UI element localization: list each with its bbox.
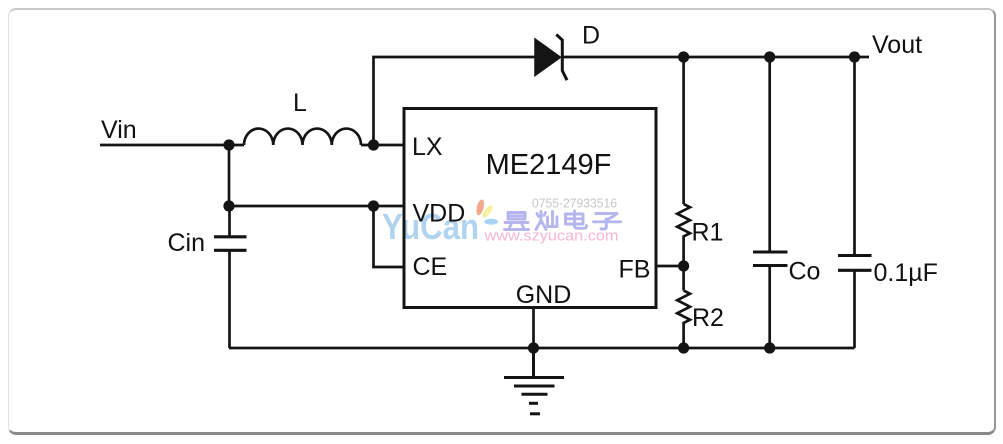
svg-text:VDD: VDD bbox=[413, 200, 466, 228]
capacitor C3 0.1uF plates bbox=[838, 256, 872, 271]
svg-text:0755-27933516: 0755-27933516 bbox=[532, 196, 617, 211]
wire Co top lead bbox=[768, 57, 771, 252]
capacitor Co plates bbox=[753, 252, 788, 266]
wire FB pin lead bbox=[656, 265, 684, 268]
node FB junction bbox=[678, 260, 689, 271]
svg-text:CE: CE bbox=[413, 253, 448, 281]
wire R1 bottom lead to FB node bbox=[682, 239, 685, 267]
svg-text:www.szyucan.com: www.szyucan.com bbox=[483, 228, 618, 245]
wire vin node to VDD rail vertical bbox=[228, 145, 231, 206]
svg-text:R1: R1 bbox=[692, 219, 724, 247]
wire Cin top lead bbox=[228, 206, 231, 237]
wire bottom ground rail bbox=[229, 347, 855, 350]
svg-text:L: L bbox=[293, 89, 307, 117]
node L/LX junction bbox=[368, 139, 379, 150]
watermark CJK char 子 bbox=[594, 214, 621, 230]
wire LX node up to diode rail bbox=[374, 57, 536, 147]
node top rail Co tap bbox=[764, 51, 775, 62]
wire diode cathode to Vout corner bbox=[563, 56, 869, 59]
svg-text:Vin: Vin bbox=[101, 116, 137, 144]
wire R2 top lead bbox=[682, 266, 685, 291]
inductor L bbox=[229, 129, 374, 145]
ground symbol bbox=[504, 348, 564, 414]
node ground rail R2 tap bbox=[678, 342, 689, 353]
node VDD/CE tee bbox=[368, 200, 379, 211]
diode D cathode bar with hooks bbox=[556, 35, 567, 81]
watermark sparkle yellow ray bbox=[481, 204, 495, 219]
wire VDD rail horizontal bbox=[229, 205, 405, 208]
svg-text:Co: Co bbox=[789, 258, 821, 286]
watermark CJK char 灿 bbox=[536, 212, 557, 230]
svg-text:D: D bbox=[582, 22, 600, 50]
wire 0.1uF bottom lead bbox=[853, 270, 856, 348]
node ground rail Co tap bbox=[764, 342, 775, 353]
watermark sparkle orange ray bbox=[475, 199, 486, 216]
svg-text:0.1µF: 0.1µF bbox=[874, 259, 938, 287]
watermark sparkle blue dash bbox=[484, 219, 498, 225]
resistor R1 zigzag bbox=[677, 204, 690, 239]
svg-text:R2: R2 bbox=[692, 304, 724, 332]
wire R2 bottom lead bbox=[682, 325, 685, 349]
resistor R2 zigzag bbox=[677, 291, 690, 325]
wire 0.1uF top lead bbox=[853, 57, 856, 256]
node top rail Vout tap bbox=[849, 51, 860, 62]
wire CE branch bbox=[374, 206, 406, 267]
capacitor Cin plates bbox=[214, 237, 247, 251]
IC U1 ME2149F body bbox=[404, 109, 656, 308]
wire R1 top lead from Vout rail bbox=[682, 57, 685, 204]
svg-text:LX: LX bbox=[412, 133, 443, 161]
watermark CJK char 昱 bbox=[505, 213, 529, 230]
node ground rail GND tap bbox=[528, 342, 539, 353]
svg-text:ME2149F: ME2149F bbox=[486, 149, 612, 181]
node top rail R1 tap bbox=[678, 51, 689, 62]
svg-text:GND: GND bbox=[516, 281, 572, 309]
svg-text:Vout: Vout bbox=[872, 31, 922, 59]
node VDD junction at Cin bbox=[223, 200, 234, 211]
wire Co bottom lead bbox=[768, 266, 771, 349]
wire Cin bottom lead to ground rail bbox=[228, 250, 231, 348]
wire LX pin lead bbox=[374, 144, 406, 147]
node Vin/L junction bbox=[223, 139, 234, 150]
wire GND pin lead bbox=[532, 308, 535, 348]
svg-text:FB: FB bbox=[619, 256, 651, 284]
watermark CJK char 电 bbox=[566, 211, 587, 228]
svg-text:Cin: Cin bbox=[168, 229, 206, 257]
diode D zener triangle bbox=[535, 39, 561, 76]
wire Vin input lead bbox=[100, 144, 229, 147]
